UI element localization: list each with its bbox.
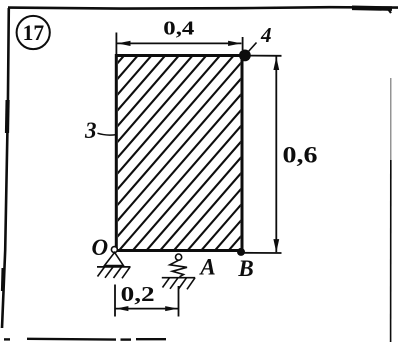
svg-text:0,4: 0,4 [163, 17, 194, 39]
svg-text:0,2: 0,2 [121, 282, 155, 306]
svg-text:4: 4 [260, 23, 272, 47]
svg-text:B: B [237, 256, 253, 281]
svg-text:3: 3 [84, 118, 97, 143]
svg-text:0,6: 0,6 [283, 143, 318, 168]
svg-text:A: A [198, 254, 215, 279]
svg-text:17: 17 [23, 20, 45, 45]
svg-text:O: O [91, 235, 108, 260]
